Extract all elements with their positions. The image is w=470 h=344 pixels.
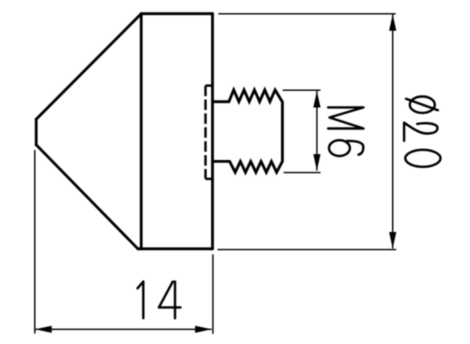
cone upper slant edge — [36, 14, 141, 120]
dim Ø20 top extension line — [218, 13, 395, 15]
dimension text 14 — [138, 282, 181, 319]
part body bottom edge — [138, 247, 213, 250]
dim 14 right extension line — [212, 254, 214, 333]
arrowhead Ø20 down — [389, 232, 396, 249]
threaded stud M6 outline with thread crests and end chamfers — [213, 90, 283, 172]
hidden feature dashed line — [204, 86, 206, 179]
cone tip flat face — [35, 119, 38, 145]
arrowhead M6 down — [313, 154, 320, 171]
dim 14 dimension line — [35, 328, 211, 330]
dim M6 top extension line — [283, 89, 321, 91]
hidden feature top cap line — [206, 84, 213, 86]
cone base junction line — [140, 14, 143, 249]
cone lower slant edge — [36, 145, 138, 249]
arrowhead 14 right — [195, 326, 212, 333]
dim M6 bottom extension line — [284, 172, 321, 174]
arrowhead M6 up — [313, 91, 320, 108]
hidden feature bottom cap line — [206, 178, 213, 180]
arrowhead Ø20 up — [389, 14, 396, 31]
dimension text M6 (rotated) — [328, 107, 363, 156]
part body right face — [211, 14, 214, 249]
part body cylinder top edge — [141, 12, 212, 15]
dim Ø20 bottom extension line — [218, 249, 397, 251]
dim Ø20 dimension line — [392, 14, 394, 248]
dim 14 left extension line — [34, 150, 36, 334]
dim M6 dimension line — [316, 91, 318, 171]
dimension text Ø20 (rotated) — [404, 97, 440, 167]
arrowhead 14 left — [35, 326, 52, 333]
